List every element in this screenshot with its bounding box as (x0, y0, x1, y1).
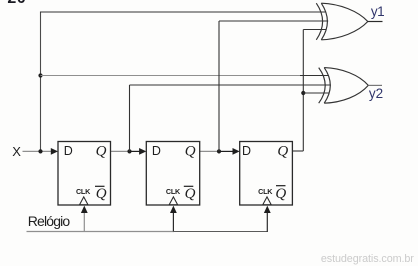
svg-text:Q: Q (275, 186, 286, 202)
FF2 clock edge triangle (169, 197, 178, 205)
FF1 clock stub wire (83, 212, 85, 232)
svg-text:Q: Q (277, 143, 288, 159)
junction dot at X upper branch (38, 73, 42, 77)
svg-text:D: D (152, 144, 161, 158)
junction dot FF3 riser (301, 91, 305, 95)
svg-text:Q: Q (185, 186, 196, 202)
wire: FF3 Q vertical riser (302, 30, 304, 152)
FF2 clock stub wire (172, 212, 174, 232)
wire: FF2 Q to XOR1 middle input (219, 20, 328, 22)
svg-text:y2: y2 (369, 86, 383, 101)
junction dot FF2 Q (217, 149, 221, 153)
svg-text:CLK: CLK (258, 187, 273, 196)
FF3 clock stub wire (266, 212, 268, 232)
wire: FF2 Q feedback vertical (218, 21, 220, 151)
svg-text:estudegratis.com.br: estudegratis.com.br (321, 253, 414, 265)
svg-text:20: 20 (7, 0, 26, 7)
svg-text:Q: Q (185, 143, 196, 159)
wire: X to XOR1 top input (40, 11, 326, 13)
wire: X to XOR2 top input (41, 75, 301, 77)
flip-flop FF3 box (240, 142, 293, 206)
svg-text:X: X (12, 144, 21, 159)
wire: FF3 Q to XOR2 bottom input (303, 92, 329, 94)
junction dot at X wire (38, 149, 42, 153)
arrowhead into FF1 D (51, 148, 58, 155)
XOR gate U1 (y1) (316, 3, 368, 40)
XOR gate U2 (y2) (319, 68, 369, 104)
wire: FF1 Q to XOR2 middle input (130, 84, 331, 86)
wire: FF1 Q feedback vertical (129, 85, 131, 151)
flip-flop FF1 box (58, 142, 111, 206)
svg-text:Q: Q (96, 186, 107, 202)
wire: FF3 Q output (292, 150, 303, 152)
svg-text:D: D (242, 144, 251, 158)
junction dot FF1 Q (127, 149, 131, 153)
flip-flop FF2 box (146, 142, 199, 206)
arrowhead into FF2 D (139, 148, 146, 155)
node: X branch vertical (40, 12, 42, 152)
wire: XOR1 output y1 (368, 21, 383, 23)
svg-text:CLK: CLK (166, 187, 181, 196)
svg-text:D: D (64, 144, 73, 158)
svg-text:y1: y1 (371, 4, 384, 19)
wire: X input horizontal (23, 150, 52, 152)
wire: FF2 Q output (200, 150, 219, 152)
arrowhead into FF3 D (233, 148, 240, 155)
FF1 clock edge triangle (80, 197, 89, 205)
svg-text:CLK: CLK (76, 187, 91, 196)
clock rail wire (27, 231, 175, 233)
wire: FF1 Q output (111, 150, 130, 152)
wire: FF3 Q to XOR1 bottom input (303, 29, 326, 31)
wire: XOR2 output y2 (368, 84, 382, 86)
FF3 clock edge triangle (263, 197, 272, 205)
cropped exercise number 20 (7, 0, 26, 7)
svg-text:Relógio: Relógio (28, 213, 71, 229)
svg-text:Q: Q (96, 143, 107, 159)
